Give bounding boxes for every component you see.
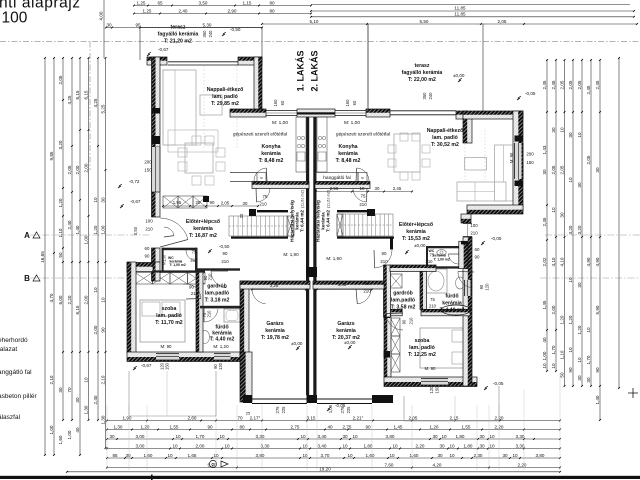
svg-text:16,65: 16,65 [40,251,45,263]
svg-text:T: 16,87 m2: T: 16,87 m2 [189,233,217,239]
svg-text:6,15: 6,15 [75,90,80,99]
svg-text:1,80: 1,80 [364,443,373,448]
svg-text:10: 10 [219,434,225,439]
svg-text:85: 85 [112,453,118,458]
svg-text:10: 10 [93,197,98,203]
svg-text:≈: ≈ [260,176,263,182]
svg-text:90: 90 [479,284,484,289]
svg-text:Konyha: Konyha [338,144,357,150]
svg-text:3,40: 3,40 [318,434,327,439]
svg-text:3,20: 3,20 [577,225,582,234]
svg-text:gardrób: gardrób [393,291,413,297]
svg-text:lam. padló: lam. padló [432,135,458,141]
svg-text:1,60: 1,60 [366,453,375,458]
svg-text:10: 10 [559,127,564,133]
svg-text:30: 30 [577,375,582,381]
svg-text:Konyha: Konyha [261,144,280,150]
svg-text:3,30: 3,30 [516,443,525,448]
svg-text:2,75: 2,75 [291,424,300,429]
svg-text:30: 30 [125,453,131,458]
svg-text:6,00: 6,00 [58,295,63,304]
svg-text:3,50: 3,50 [199,0,208,5]
svg-text:30: 30 [502,453,508,458]
svg-text:(11,61 m2): (11,61 m2) [301,189,305,208]
svg-text:4,20: 4,20 [433,462,442,467]
svg-text:2,45: 2,45 [595,80,600,89]
svg-text:1,10: 1,10 [559,350,564,359]
svg-text:1,00: 1,00 [542,351,547,360]
svg-text:30: 30 [595,167,600,173]
svg-text:10: 10 [352,434,358,439]
svg-text:1,30: 1,30 [83,405,88,414]
svg-text:2,05: 2,05 [551,165,556,174]
svg-text:2,20: 2,20 [67,295,72,304]
svg-text:szoba: szoba [415,338,430,344]
svg-text:2,10: 2,10 [100,375,105,384]
svg-text:225: 225 [281,406,286,414]
svg-text:350: 350 [202,30,207,38]
svg-text:T: 22,00 m2: T: 22,00 m2 [408,77,436,83]
svg-text:2,17°: 2,17° [250,415,261,420]
svg-text:6,15: 6,15 [75,305,80,314]
svg-text:álaszfal: álaszfal [0,414,21,421]
svg-text:±0,00: ±0,00 [414,243,426,248]
svg-text:210: 210 [380,259,388,264]
svg-text:3,40: 3,40 [318,443,327,448]
svg-text:lam. padló: lam. padló [212,94,238,100]
svg-text:szoba: szoba [162,306,177,312]
svg-text:100: 100 [470,223,478,228]
svg-text:gépészeti szerelt előtétfal: gépészeti szerelt előtétfal [233,132,287,138]
svg-text:1,30: 1,30 [100,415,105,424]
svg-text:30: 30 [437,453,443,458]
svg-text:10: 10 [360,186,365,191]
svg-text:275: 275 [275,406,280,414]
svg-text:Előtér+lépcső: Előtér+lépcső [399,222,433,228]
svg-text:T: 11,70 m2: T: 11,70 m2 [155,320,183,326]
svg-text:3,00: 3,00 [136,434,145,439]
svg-text:30: 30 [100,197,105,203]
svg-text:4,00: 4,00 [99,11,104,20]
svg-text:2,30: 2,30 [474,453,483,458]
svg-text:210: 210 [426,259,434,264]
svg-text:T: 8,48 m2: T: 8,48 m2 [336,158,361,164]
svg-text:10: 10 [441,434,447,439]
svg-text:210: 210 [191,291,199,296]
svg-text:10: 10 [342,443,348,448]
svg-text:95: 95 [135,22,141,27]
svg-text:90: 90 [365,281,370,286]
svg-text:4,25: 4,25 [67,95,72,104]
svg-text:10: 10 [449,453,455,458]
svg-text:75: 75 [430,297,435,302]
svg-text:10: 10 [577,132,582,138]
svg-text:10: 10 [512,453,518,458]
svg-text:T: 12,25 m2: T: 12,25 m2 [408,352,436,358]
svg-text:1,60: 1,60 [144,453,153,458]
svg-text:5,50: 5,50 [420,19,429,24]
svg-text:75: 75 [430,253,435,258]
svg-text:2,00: 2,00 [83,163,88,172]
svg-text:3,70: 3,70 [321,453,330,458]
svg-text:1,30: 1,30 [114,424,123,429]
svg-text:T: 4,40 m2: T: 4,40 m2 [210,337,235,343]
svg-text:80: 80 [269,0,275,5]
svg-text:2,05: 2,05 [559,165,564,174]
svg-text:65: 65 [157,0,163,5]
svg-text:T: 19,78 m2: T: 19,78 m2 [261,335,289,341]
svg-text:1,20: 1,20 [430,424,439,429]
svg-text:2,05: 2,05 [559,80,564,89]
svg-text:10: 10 [100,297,105,303]
svg-text:lam. padló: lam. padló [409,345,435,351]
svg-text:1,60: 1,60 [410,453,419,458]
svg-text:210: 210 [409,317,414,325]
svg-text:T: 3,18 m2: T: 3,18 m2 [205,298,230,304]
svg-text:-0,05: -0,05 [525,91,536,96]
svg-text:30: 30 [106,22,112,27]
svg-text:2,05: 2,05 [58,75,63,84]
svg-text:90: 90 [210,200,215,205]
svg-text:kerámia: kerámia [265,328,285,334]
svg-text:2,05: 2,05 [409,415,418,420]
svg-text:90: 90 [145,254,150,259]
svg-text:2,45: 2,45 [586,85,591,94]
svg-text:1,20: 1,20 [93,225,98,234]
svg-text:T: 29,85 m2: T: 29,85 m2 [211,101,239,107]
svg-text:210: 210 [259,202,267,207]
svg-text:M: 1,00: M: 1,00 [272,120,288,126]
svg-text:4,70: 4,70 [49,293,54,302]
svg-text:T: 15,53 m2: T: 15,53 m2 [402,236,430,242]
svg-text:20: 20 [196,200,201,205]
svg-text:-0,05: -0,05 [491,236,502,241]
svg-text:9,85: 9,85 [49,151,54,160]
svg-text:1,70: 1,70 [196,434,205,439]
svg-text:210: 210 [429,304,437,309]
svg-text:3,80: 3,80 [256,453,265,458]
svg-text:1,05: 1,05 [328,404,333,413]
svg-text:30: 30 [439,443,445,448]
svg-text:3,80: 3,80 [386,434,395,439]
svg-text:1,70: 1,70 [586,355,591,364]
svg-text:Nappali-étkező: Nappali-étkező [427,128,464,134]
svg-text:T: 21,20 m2: T: 21,20 m2 [164,39,192,45]
svg-text:80: 80 [269,8,275,13]
svg-text:3,80: 3,80 [536,453,545,458]
svg-text:2,75: 2,75 [343,424,352,429]
svg-text:150: 150 [144,168,152,173]
svg-text:275: 275 [340,406,345,414]
svg-text:70: 70 [237,415,243,420]
svg-text:20: 20 [239,213,244,218]
svg-text:4,25: 4,25 [93,98,98,107]
svg-text:gardrób: gardrób [207,284,227,290]
svg-text:10: 10 [577,357,582,363]
svg-text:10: 10 [213,453,219,458]
svg-text:11,85: 11,85 [454,12,466,17]
svg-text:40: 40 [327,424,333,429]
svg-text:2,00: 2,00 [551,305,556,314]
svg-text:±0,00: ±0,00 [453,73,465,78]
svg-text:10: 10 [167,453,173,458]
svg-text:3,20: 3,20 [58,140,63,149]
svg-text:90: 90 [189,285,194,290]
svg-text:T: 1,00 m2: T: 1,00 m2 [434,258,450,262]
svg-text:5,10: 5,10 [310,19,319,24]
svg-text:6,15: 6,15 [83,90,88,99]
svg-text:60: 60 [145,246,150,251]
svg-text:4,10: 4,10 [559,257,564,266]
svg-text:B: B [24,274,30,283]
svg-text:7,60: 7,60 [385,462,394,467]
svg-text:T: 30,52 m2: T: 30,52 m2 [431,142,459,148]
svg-text:1,43: 1,43 [542,145,547,154]
svg-text:2,00: 2,00 [83,295,88,304]
svg-text:90: 90 [207,424,213,429]
svg-text:10: 10 [551,207,556,213]
svg-text:30: 30 [577,182,582,188]
svg-text:30: 30 [479,434,485,439]
svg-text:350: 350 [422,92,427,100]
svg-text:2,05: 2,05 [586,155,591,164]
svg-text:30: 30 [577,282,582,288]
svg-text:1,25: 1,25 [137,0,146,5]
svg-text:3,30: 3,30 [516,434,525,439]
svg-text:10: 10 [449,443,455,448]
svg-text:100: 100 [2,10,28,27]
svg-text:90: 90 [365,424,371,429]
svg-text:90: 90 [595,367,600,373]
svg-text:kerámia: kerámia [406,229,426,235]
svg-text:2,40: 2,40 [179,8,188,13]
svg-text:210: 210 [207,310,212,318]
svg-text:lam.padló: lam.padló [205,291,229,297]
svg-text:75: 75 [361,194,366,199]
svg-text:1,20: 1,20 [559,315,564,324]
svg-text:2,45: 2,45 [551,80,556,89]
svg-text:2. LAKÁS: 2. LAKÁS [310,50,320,91]
svg-text:2,15: 2,15 [450,415,459,420]
svg-text:10: 10 [551,363,556,369]
svg-text:-0,67: -0,67 [130,199,141,204]
svg-text:10: 10 [175,434,181,439]
svg-text:fürdő: fürdő [445,294,458,300]
svg-text:1,25: 1,25 [143,8,152,13]
svg-text:0,50: 0,50 [133,226,138,235]
svg-text:10: 10 [300,434,306,439]
svg-text:1,65: 1,65 [188,453,197,458]
svg-text:M: 1,20: M: 1,20 [213,344,229,349]
svg-text:30: 30 [432,434,438,439]
svg-text:5,90: 5,90 [595,305,600,314]
svg-text:2,20: 2,20 [416,443,425,448]
svg-text:3,00: 3,00 [136,443,145,448]
svg-text:T: 6,44 m2: T: 6,44 m2 [326,210,331,232]
svg-text:2,10: 2,10 [49,375,54,384]
svg-text:40: 40 [75,427,80,433]
svg-text:1,80: 1,80 [456,434,465,439]
svg-text:100: 100 [145,219,153,224]
svg-text:210: 210 [208,273,213,281]
svg-text:10: 10 [224,443,230,448]
svg-text:210: 210 [470,231,478,236]
svg-text:60: 60 [280,100,285,105]
svg-text:240: 240 [428,92,433,100]
svg-text:5,30: 5,30 [203,22,212,27]
svg-text:T: 6,44 m2: T: 6,44 m2 [300,210,305,232]
svg-text:1,20: 1,20 [568,315,573,324]
svg-text:10: 10 [586,327,591,333]
svg-text:M: 90: M: 90 [509,152,514,163]
svg-text:3,25: 3,25 [270,283,279,288]
svg-text:75: 75 [263,194,268,199]
svg-text:kerámia: kerámia [338,151,358,157]
svg-text:4,90: 4,90 [586,257,591,266]
svg-text:10: 10 [172,443,178,448]
svg-text:80: 80 [239,424,245,429]
svg-text:M: 90: M: 90 [161,344,173,349]
svg-text:1,60: 1,60 [58,435,63,444]
svg-text:3,35: 3,35 [338,282,347,287]
svg-text:1,20: 1,20 [141,424,150,429]
svg-text:3,30: 3,30 [256,434,265,439]
svg-text:2,00: 2,00 [75,165,80,174]
svg-text:M:1,90: M:1,90 [163,255,167,265]
svg-text:150: 150 [165,362,170,370]
svg-text:70: 70 [67,387,72,393]
svg-text:2,05: 2,05 [67,165,72,174]
svg-text:10: 10 [392,443,398,448]
svg-text:160: 160 [273,99,278,107]
svg-text:1,40: 1,40 [595,395,600,404]
svg-text:2,02: 2,02 [542,257,547,266]
svg-text:T: 1,00 m2: T: 1,00 m2 [170,263,186,267]
svg-text:90: 90 [100,327,105,333]
svg-text:210: 210 [190,258,198,263]
svg-text:Garázs: Garázs [337,321,354,327]
svg-text:2,05: 2,05 [498,19,507,24]
svg-text:hanggátló fal: hanggátló fal [323,175,350,181]
svg-text:30: 30 [559,212,564,218]
svg-text:30: 30 [75,397,80,403]
svg-text:1,00: 1,00 [100,225,105,234]
svg-text:19,20: 19,20 [319,467,331,472]
svg-text:2,40: 2,40 [93,395,98,404]
svg-text:30: 30 [109,434,115,439]
svg-text:10: 10 [389,453,395,458]
svg-text:1,55: 1,55 [170,424,179,429]
svg-text:1,95: 1,95 [173,200,182,205]
svg-text:1,45: 1,45 [394,424,403,429]
svg-text:≈: ≈ [361,176,364,182]
svg-text:30: 30 [375,186,380,191]
svg-text:1,10: 1,10 [58,228,63,237]
svg-text:10: 10 [93,287,98,293]
svg-text:2,20: 2,20 [518,462,527,467]
svg-text:1,80: 1,80 [464,443,473,448]
svg-text:M: 1,90: M: 1,90 [326,256,342,261]
svg-text:150: 150 [526,160,534,165]
svg-text:2,45: 2,45 [393,186,402,191]
svg-text:2,05: 2,05 [221,201,230,206]
svg-text:10: 10 [542,363,547,369]
svg-text:30: 30 [586,377,591,383]
svg-text:terasz: terasz [415,63,430,69]
svg-text:1,45: 1,45 [542,300,547,309]
svg-text:A: A [24,231,30,240]
svg-text:11,85: 11,85 [454,6,466,11]
svg-text:120: 120 [485,283,490,291]
svg-text:4,10: 4,10 [551,257,556,266]
svg-text:Nappali-étkező: Nappali-étkező [207,87,244,93]
svg-text:210: 210 [221,259,229,264]
svg-text:lam. padló: lam. padló [156,313,182,319]
svg-text:1,55: 1,55 [462,424,471,429]
svg-text:-0,50: -0,50 [219,244,230,249]
svg-text:2,05: 2,05 [577,80,582,89]
svg-text:160: 160 [345,99,350,107]
svg-text:90: 90 [568,367,573,373]
svg-text:1,00: 1,00 [67,430,72,439]
svg-text:60: 60 [352,100,357,105]
svg-text:1. LAKÁS: 1. LAKÁS [296,50,306,91]
svg-text:kerámia: kerámia [336,328,356,334]
svg-text:60: 60 [475,247,480,252]
svg-text:90: 90 [382,251,387,256]
svg-text:1,20: 1,20 [577,325,582,334]
svg-text:150: 150 [435,386,440,394]
svg-text:210: 210 [145,227,153,232]
svg-text:1,70: 1,70 [551,345,556,354]
svg-text:kerámia: kerámia [442,301,462,307]
svg-text:2,00: 2,00 [93,325,98,334]
svg-text:75: 75 [192,250,197,255]
svg-text:2,40: 2,40 [67,220,72,229]
svg-text:30: 30 [542,169,547,175]
svg-text:lam.padló: lam.padló [391,298,415,304]
svg-text:90: 90 [402,319,407,324]
svg-text:2,05: 2,05 [568,80,573,89]
svg-text:210: 210 [359,202,367,207]
svg-text:10: 10 [568,177,573,183]
svg-text:10: 10 [568,277,573,283]
svg-text:1,15: 1,15 [243,0,252,5]
svg-text:1,40: 1,40 [75,225,80,234]
svg-text:5,25: 5,25 [100,104,105,113]
svg-text:40: 40 [542,337,547,343]
svg-text:2,20: 2,20 [495,424,504,429]
svg-text:10: 10 [83,377,88,383]
svg-text:2,21°: 2,21° [353,415,364,420]
svg-text:30: 30 [342,434,348,439]
svg-text:90: 90 [475,255,480,260]
svg-text:2,55: 2,55 [330,186,339,191]
svg-text:-0,67: -0,67 [141,363,152,368]
svg-text:3,20: 3,20 [568,225,573,234]
svg-text:T: 8,48 m2: T: 8,48 m2 [259,158,284,164]
svg-text:200: 200 [526,152,534,157]
svg-text:10: 10 [489,443,495,448]
svg-text:4,90: 4,90 [595,257,600,266]
svg-text:asbeton pillér: asbeton pillér [0,393,37,400]
svg-text:1,00: 1,00 [83,235,88,244]
svg-text:10: 10 [347,453,353,458]
svg-text:120: 120 [218,362,223,370]
svg-text:2,00: 2,00 [196,443,205,448]
svg-text:kerámia: kerámia [261,151,281,157]
svg-text:fagyálló kerámia: fagyálló kerámia [402,70,443,76]
